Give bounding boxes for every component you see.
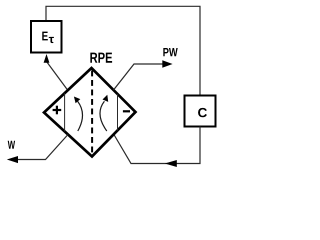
arrowhead PW [162,60,172,67]
label RPE [90,53,112,63]
wire W output [18,135,69,160]
curved arrow right [100,101,107,131]
label W [8,141,15,149]
wire C bottom feedback loop to diamond [114,127,200,164]
wire PW output [114,64,164,90]
curved arrow left [78,101,83,131]
minus sign [123,110,130,112]
diamond RPE block [44,68,136,157]
arrowhead feedback loop pointing left [165,160,177,167]
block E_tau [31,21,62,53]
wire top feedback: E box top to C box top [46,6,200,95]
dashed center line [91,71,93,155]
block C [185,96,216,127]
inner partition line right [117,94,119,130]
arrowhead W [7,156,18,163]
wire diamond to E_tau [47,62,68,91]
label PW [163,48,177,56]
arrowhead into E_tau [44,54,50,63]
plus sign [53,109,62,111]
inner partition line left [64,93,66,131]
